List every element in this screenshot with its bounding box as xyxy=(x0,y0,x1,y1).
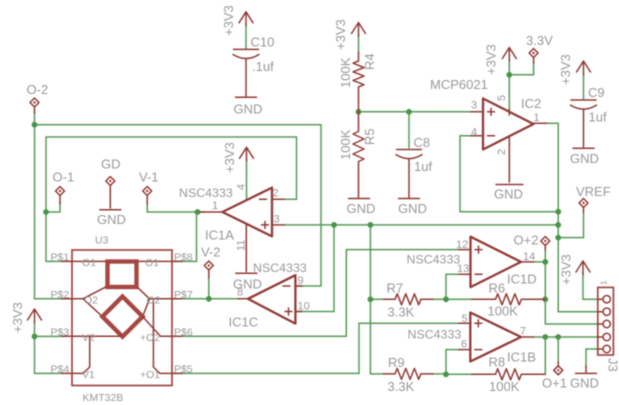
svg-text:+3V3: +3V3 xyxy=(484,44,499,75)
connector J3 pin2 circle xyxy=(598,308,610,315)
pin P$8 row (O1 right) xyxy=(137,260,183,262)
wire VREF pin branch xyxy=(558,211,583,238)
supply +3V3 (C10) xyxy=(221,5,253,36)
node C8 dot xyxy=(406,109,412,115)
wire R9 right lead green xyxy=(433,373,446,375)
node IC2 supply dot xyxy=(506,72,512,78)
svg-text:2: 2 xyxy=(496,149,508,155)
svg-text:3.3V: 3.3V xyxy=(526,33,553,48)
svg-text:8: 8 xyxy=(237,287,243,299)
svg-text:GND: GND xyxy=(398,201,427,216)
svg-text:GD: GD xyxy=(101,157,121,172)
wire O-2 pin stem xyxy=(34,111,36,125)
svg-text:1uf: 1uf xyxy=(589,110,607,125)
pin P$4 row (V1) xyxy=(62,336,90,373)
node feedback dot xyxy=(555,209,561,215)
svg-text:J3: J3 xyxy=(606,358,619,372)
connector J3 box xyxy=(598,287,614,355)
wire IC1A feedback rectangle: P$1 up, across y=137, down x=296.5 to pin2 xyxy=(46,137,297,261)
node O-1 pin xyxy=(53,170,75,205)
svg-text:V-2: V-2 xyxy=(201,245,221,260)
node O+1 dot xyxy=(555,334,561,340)
svg-text:100K: 100K xyxy=(489,379,520,394)
svg-text:100K: 100K xyxy=(338,57,353,88)
wire VREF rail y=224.9 from IC1A pin3 to x=558 xyxy=(284,224,558,226)
svg-text:5: 5 xyxy=(462,313,468,325)
wire R7 left lead green xyxy=(370,298,383,300)
wire +3V3 stem to IC1A pin4 xyxy=(246,160,248,200)
svg-text:P$1: P$1 xyxy=(51,252,70,264)
svg-text:1: 1 xyxy=(534,112,540,124)
svg-text:3: 3 xyxy=(274,214,280,226)
svg-text:2: 2 xyxy=(273,188,279,200)
wire P$5 riser to IC1B pin5 xyxy=(172,323,459,373)
wire rail to IC1C pin10 via x=334 xyxy=(297,225,334,312)
node O+1 pin xyxy=(542,362,567,391)
wire O-2 rail: right along y=124.7 then down x=321 to IC1C pin9 xyxy=(35,125,322,286)
supply +3V3 (C9) xyxy=(558,54,591,85)
node +3V3/P$3 junction xyxy=(32,334,38,340)
bridge element square xyxy=(108,262,137,288)
svg-text:P$4: P$4 xyxy=(51,364,70,376)
node pin7 dot xyxy=(542,334,548,340)
svg-text:3.3K: 3.3K xyxy=(388,379,415,394)
svg-text:R4: R4 xyxy=(362,53,377,70)
capacitor C10 xyxy=(233,35,274,97)
svg-text:GND: GND xyxy=(494,187,523,202)
svg-text:IC1B: IC1B xyxy=(507,350,536,365)
svg-text:GND: GND xyxy=(97,212,126,227)
svg-text:GND: GND xyxy=(234,102,263,117)
supply +3V3 (R4) xyxy=(333,19,366,50)
svg-text:P$2: P$2 xyxy=(51,289,70,301)
svg-text:GND: GND xyxy=(347,201,376,216)
svg-text:C9: C9 xyxy=(588,85,605,100)
svg-text:R8: R8 xyxy=(489,355,506,370)
wire O+2 stem down xyxy=(544,248,546,262)
ground IC1A pin11 xyxy=(233,273,262,291)
wire P$6 riser to IC1D pin12 xyxy=(172,250,459,337)
wire IC1B pin6 loop to R8/R9 node xyxy=(446,350,459,375)
svg-text:3.3K: 3.3K xyxy=(388,305,415,320)
svg-text:5: 5 xyxy=(496,95,508,101)
svg-text:+O1: +O1 xyxy=(140,369,160,381)
svg-text:7: 7 xyxy=(520,326,526,338)
node R7 left dot xyxy=(368,296,374,302)
svg-text:VREF: VREF xyxy=(576,184,611,199)
svg-text:+3V3: +3V3 xyxy=(333,19,348,50)
node R9/R8/pin6 dot xyxy=(443,371,449,377)
svg-text:V-1: V-1 xyxy=(139,170,159,185)
ground C9 xyxy=(570,148,599,166)
supply +3V3 (IC1A pin4) xyxy=(222,142,254,173)
svg-text:P$5: P$5 xyxy=(174,364,193,376)
wire R7 right lead green xyxy=(433,298,446,300)
svg-text:P$6: P$6 xyxy=(174,326,193,338)
op-amp IC1C xyxy=(237,275,310,324)
svg-text:9: 9 xyxy=(298,275,304,287)
svg-text:KMT32B: KMT32B xyxy=(83,392,124,404)
wire IC1B pin7 to J3 pin4 xyxy=(534,336,599,338)
svg-text:C10: C10 xyxy=(251,35,275,50)
wire R4 top from +3V3 arrow xyxy=(358,35,360,52)
svg-text:V2: V2 xyxy=(82,332,95,344)
svg-text:+3V3: +3V3 xyxy=(559,254,574,285)
node R4/R5 dot xyxy=(356,109,362,115)
svg-text:O+2: O+2 xyxy=(514,233,539,248)
wire C10 top lead from +3V3 arrow xyxy=(245,25,247,48)
wire IC1D output down to R6 right and J3 pin3 xyxy=(545,262,598,324)
ground C10 xyxy=(234,97,263,116)
svg-text:6: 6 xyxy=(461,339,467,351)
wire O-2 down left edge to P$2 xyxy=(35,125,64,299)
supply +3V3 (J3 pin1) xyxy=(559,254,591,285)
svg-text:P$8: P$8 xyxy=(174,252,193,264)
connector J3 pin1 circle xyxy=(598,296,610,303)
svg-text:+O2: +O2 xyxy=(140,332,160,344)
capacitor C9 xyxy=(571,85,607,147)
svg-text:R6: R6 xyxy=(489,281,506,296)
resistor R4 (vertical) xyxy=(338,52,377,112)
supply +3V3 (IC2 pin5) xyxy=(484,44,517,75)
op-amp IC1D xyxy=(456,237,535,287)
svg-text:O1: O1 xyxy=(145,257,159,269)
wire IC1B output down to R8 right xyxy=(544,337,546,374)
ground J3 pin5 xyxy=(570,366,599,391)
node GD pin and ground xyxy=(97,157,126,228)
svg-text:+3V3: +3V3 xyxy=(221,5,236,36)
svg-text:1: 1 xyxy=(212,200,218,212)
node O-2 pin xyxy=(27,82,49,113)
wire C8 top lead xyxy=(408,112,410,148)
node VREF pin xyxy=(576,184,611,212)
wire rail down x=370 to R7 and R9 xyxy=(370,225,383,374)
svg-text:.1uf: .1uf xyxy=(252,59,274,74)
svg-text:+3V3: +3V3 xyxy=(558,54,573,85)
node O+2 pin xyxy=(514,233,550,251)
svg-text:R9: R9 xyxy=(388,355,405,370)
svg-text:GND: GND xyxy=(570,376,599,391)
node 3.3V pin xyxy=(526,33,553,63)
wire V-2 stem xyxy=(208,277,210,299)
svg-text:NSC4333: NSC4333 xyxy=(253,261,307,275)
op-amp IC1A xyxy=(200,184,284,272)
pin P$3 row (V2) xyxy=(62,335,122,337)
node rail/IC1C pin10 dot xyxy=(331,222,337,228)
op-amp IC1B xyxy=(459,313,534,362)
svg-text:R5: R5 xyxy=(362,128,377,145)
node VREF dot xyxy=(555,235,561,241)
wire P$8 riser to pin1 dot xyxy=(172,212,197,261)
node rail end dot xyxy=(555,222,561,228)
svg-text:MCP6021: MCP6021 xyxy=(430,77,488,92)
connector J3 pin5 circle xyxy=(598,345,610,352)
wire +3V3 to J3 pin1 xyxy=(583,273,598,299)
capacitor C8 xyxy=(396,135,432,197)
node rail/R7 dot xyxy=(368,222,374,228)
node V-2/P$7 dot xyxy=(206,296,212,302)
ground IC2 pin2 xyxy=(494,185,523,202)
svg-text:+3V3: +3V3 xyxy=(222,142,237,173)
wire C9 top lead from +3V3 arrow xyxy=(583,74,585,99)
ground R5 xyxy=(347,199,376,217)
node O+2/pin14 dot xyxy=(542,259,548,265)
node pin1/V-1/P$8 dot xyxy=(195,209,201,215)
wire R8 left lead green xyxy=(446,373,472,375)
svg-text:11: 11 xyxy=(236,240,248,251)
svg-text:V1: V1 xyxy=(82,369,95,381)
pin P$7 row (O2 right) xyxy=(138,287,183,316)
wire IC2 pin4 feedback loop xyxy=(460,136,558,212)
wire V-1 stem right to pin1 dot xyxy=(147,203,197,212)
svg-text:U3: U3 xyxy=(95,235,109,247)
svg-text:O1: O1 xyxy=(82,257,96,269)
wire P$3 from junction xyxy=(35,335,64,337)
svg-text:100K: 100K xyxy=(338,129,353,160)
wire R6 left lead green xyxy=(446,298,472,300)
wire O-1 stem to dot xyxy=(46,203,60,212)
wire pin1 green tail xyxy=(198,211,206,213)
node O-2 junction xyxy=(32,122,38,128)
wire IC1D pin14 to O+2 dot xyxy=(534,261,546,263)
svg-text:10: 10 xyxy=(298,301,310,313)
node O-1 dot xyxy=(43,209,49,215)
svg-text:3: 3 xyxy=(471,100,477,112)
pin P$2 row (O2 left) xyxy=(62,287,106,317)
svg-text:1: 1 xyxy=(599,280,609,285)
wire +3V3 stem to P$3 junction xyxy=(34,322,36,336)
wire O+1 stem xyxy=(557,337,559,363)
sensor U3 box xyxy=(72,250,172,386)
op-amp IC2 xyxy=(471,95,547,182)
svg-text:O-2: O-2 xyxy=(27,82,49,97)
bridge element diamond xyxy=(102,297,142,337)
svg-text:12: 12 xyxy=(456,239,468,251)
svg-text:NSC4333: NSC4333 xyxy=(407,253,461,267)
node R7/R6/pin13 dot xyxy=(443,296,449,302)
svg-text:1uf: 1uf xyxy=(414,159,432,174)
wire R4/R5 node rail y=111.8 to IC2 pin3 xyxy=(359,111,471,113)
svg-text:O2: O2 xyxy=(147,294,161,306)
wire IC2 pin5 supply xyxy=(508,60,510,109)
ground C8 xyxy=(398,199,427,217)
svg-text:NSC4333: NSC4333 xyxy=(179,186,233,200)
svg-text:R7: R7 xyxy=(387,281,404,296)
svg-text:GND: GND xyxy=(570,151,599,166)
svg-text:C8: C8 xyxy=(414,135,431,150)
svg-text:4: 4 xyxy=(236,184,248,190)
resistor R9 (horizontal) xyxy=(384,355,434,394)
wire J3 pin5 to GND xyxy=(586,349,598,367)
svg-text:O+1: O+1 xyxy=(542,376,567,391)
wire 3.3V pin to +3V3 junction xyxy=(509,62,533,75)
supply +3V3 (P$3/P$4) xyxy=(10,302,42,333)
wire IC2 output down x=558 (VREF net) to J3 pin2 xyxy=(547,123,599,311)
svg-text:IC2: IC2 xyxy=(521,96,541,111)
connector J3 pin3 circle xyxy=(598,320,610,327)
resistor R8 (horizontal) xyxy=(472,355,546,395)
node V-2 pin xyxy=(201,245,221,279)
svg-text:IC1C: IC1C xyxy=(229,315,259,330)
pin P$1 row (O1 left) xyxy=(62,260,108,262)
resistor R6 (horizontal) xyxy=(472,281,546,319)
resistor R5 (vertical) xyxy=(338,112,377,197)
svg-text:IC1A: IC1A xyxy=(205,228,234,243)
wire P$4 from junction xyxy=(35,336,64,373)
pin P$6 row (+O2) xyxy=(143,317,182,337)
svg-text:O-1: O-1 xyxy=(53,170,75,185)
svg-text:100K: 100K xyxy=(488,304,519,319)
svg-text:O2: O2 xyxy=(84,294,98,306)
svg-text:14: 14 xyxy=(523,251,535,263)
svg-text:+3V3: +3V3 xyxy=(10,302,25,333)
svg-text:IC1D: IC1D xyxy=(507,272,537,287)
node R6 right dot xyxy=(542,296,548,302)
wire IC1D pin13 loop to R7/R6 node xyxy=(446,274,459,299)
connector J3 pin4 circle xyxy=(598,333,610,340)
resistor R7 (horizontal) xyxy=(384,281,434,320)
pin P$5 row (+O1) xyxy=(153,299,182,374)
wire P$7 to IC1C pin8 xyxy=(172,298,238,300)
svg-text:4: 4 xyxy=(471,127,477,139)
svg-text:P$7: P$7 xyxy=(174,289,193,301)
svg-text:NSC4333: NSC4333 xyxy=(408,328,462,342)
node V-1 pin xyxy=(139,170,159,205)
svg-text:P$3: P$3 xyxy=(51,326,70,338)
